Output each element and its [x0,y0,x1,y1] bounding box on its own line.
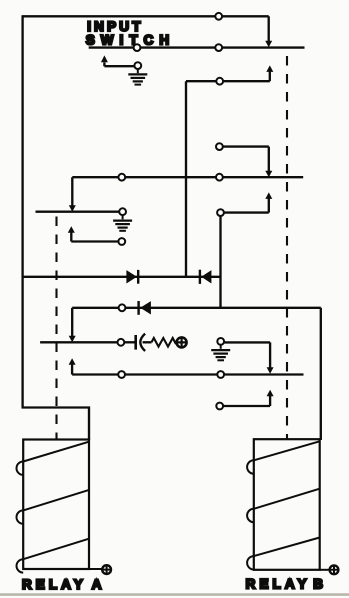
node: circle on row y374 (right) [217,371,224,378]
ground: G1 below input switch [137,69,139,73]
wire: diode bus y276 [23,276,220,278]
relay B coil winding 2 [254,489,320,509]
node: contact circle on row y81 [216,78,223,85]
relay A coil winding 1 [23,442,89,462]
wire: row y307 to relay B [72,307,321,309]
svg-text:RELAY: RELAY [246,576,311,591]
wire: right stub y212 with up arrow at bus [217,209,224,216]
wire: lower stub y406 with up arrow at row y374 [216,403,223,410]
wire: switch armature arm with up arrow [104,62,134,66]
node: circle at ground line end [119,208,126,215]
node: circle on row y374 (left) [118,371,125,378]
wire: vertical from stub circle down through diode bus to row y307 [219,216,221,308]
relay B body [254,439,320,570]
ground: G3 [220,345,222,349]
svg-text:SWITCH: SWITCH [86,33,176,48]
svg-text:RELAY: RELAY [22,577,87,592]
wire: dashed link to relay B [286,56,288,439]
relay B coil winding 3 [254,538,320,557]
wire: bus row y177 [72,176,303,178]
wire: row y307 left drop with down arrow onto capacitor row [71,308,73,337]
page bottom edge line [0,593,349,596]
wire: capacitor to resistor [143,341,152,343]
wire: dashed link to relay A [55,217,57,440]
diode D2 (pointing left) [199,270,201,284]
node: contact circle on top border [215,13,222,20]
wire: G3 stub right with down arrow onto row y374 [224,342,270,368]
diode D1 (pointing right) [126,270,136,283]
wire: row y374 [72,373,303,375]
wire: grounded line y211 [36,211,120,213]
capacitor C1 (flat plate + curved plate) [134,335,137,350]
resistor R1 [152,338,177,347]
node: circle on bus (right) [216,174,223,181]
node: circle with ground G3 [217,338,224,345]
node: armature circle [134,62,141,69]
node: circle on capacitor row [118,339,125,346]
wire: stub y146 with circle, down arrow onto bus [216,143,223,150]
wire: input switch line [89,46,305,48]
wire: left border jog down to relay A top-right [22,408,90,441]
relay A coil winding 3 [23,539,89,560]
diode D3 (pointing left) [137,301,139,315]
wire: bus left drop with down arrow onto ground line [71,177,73,206]
wire: row y307 right drop down to relay B top-right [320,308,322,440]
relay A coil winding 2 [23,490,89,511]
wire: drop from top border with down arrow onto switch line [268,16,270,42]
relay A body [23,440,89,570]
svg-text:B: B [313,576,323,591]
node: contact circle on switch line (right) [215,44,222,51]
svg-text:A: A [92,577,102,592]
wire: figure top border [23,15,269,17]
node: circle on bus (left) [118,174,125,181]
wire: row y374 left corner with up arrow at capacitor row [71,364,73,375]
node: circle on row y307 [119,304,126,311]
wire: figure left border [21,15,23,407]
node: contact circle on switch line (left) [134,44,141,51]
node: circle at arm end [118,238,125,245]
wire: contact row y81 with up arrow at right [186,80,270,82]
wire: long vertical from row y81 down to diode bus [185,81,187,277]
terminal: relay B crossed-circle [320,569,330,571]
ground: G2 below line y211 [122,215,124,219]
relay B coil winding 1 [254,441,320,460]
wire: capacitor row left segment [40,341,117,343]
terminal: +V crossed-circle on resistor [177,337,187,347]
wire: arm y241 with up arrow at ground line [70,232,72,242]
terminal: relay A crossed-circle [89,568,102,570]
